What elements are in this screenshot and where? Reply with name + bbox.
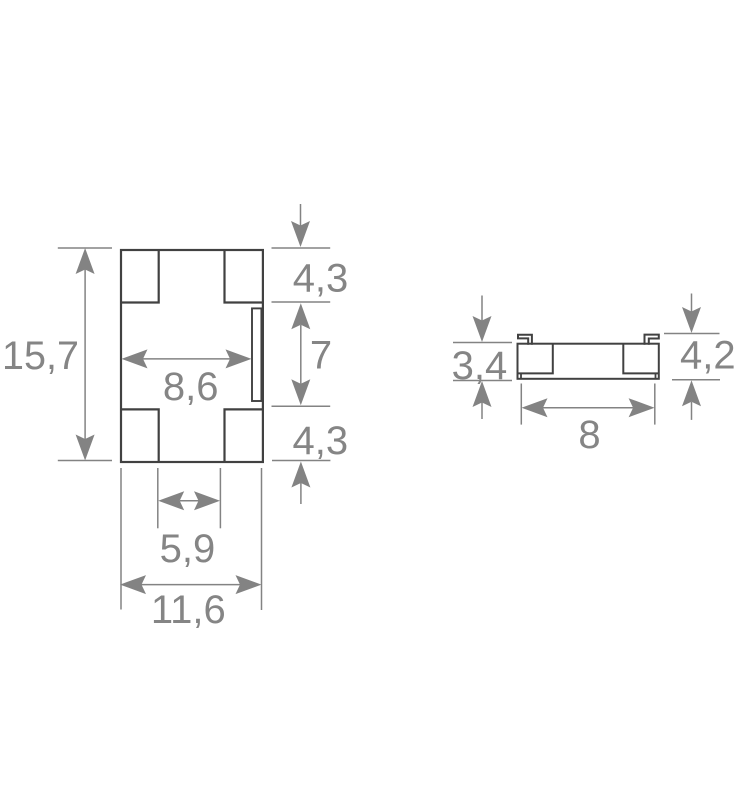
extension line 3,4 top <box>453 342 512 344</box>
svg-text:4,2: 4,2 <box>680 334 736 378</box>
extension line 4,2 top <box>664 333 720 335</box>
svg-text:7: 7 <box>310 334 332 378</box>
extension line 4,2 bottom <box>672 379 720 381</box>
dimension line 11,6 <box>142 584 241 586</box>
left view bottom-left corner pad <box>121 409 159 462</box>
arrowhead 4,3 bottom pointing up <box>291 462 310 488</box>
left view top-left corner pad <box>121 250 159 303</box>
extension line right #3 <box>272 405 331 407</box>
extension line 8 left <box>520 384 522 425</box>
left view body outline <box>121 250 263 462</box>
svg-text:15,7: 15,7 <box>2 334 79 378</box>
arrowhead 7 up <box>291 303 310 329</box>
arrowhead 8 right <box>629 398 655 417</box>
dimension line 8 <box>543 407 633 409</box>
svg-text:5,9: 5,9 <box>160 527 216 571</box>
arrowhead 5,9 right <box>194 491 220 510</box>
extension line bottom right outer <box>261 468 263 610</box>
side view body outline <box>518 344 659 379</box>
side view bottom lead tick left <box>520 373 522 378</box>
extension line 3,4 bottom <box>453 380 512 382</box>
arrowhead 4,2 top pointing down <box>682 307 701 333</box>
arrowhead 3,4 bottom pointing up <box>473 381 492 407</box>
side view left electrode block <box>518 344 553 374</box>
arrowhead 3,4 top pointing down <box>473 316 492 342</box>
leader shaft 3,4 top <box>481 296 483 321</box>
svg-text:3,4: 3,4 <box>452 344 508 388</box>
leader shaft 4,3 top <box>300 204 302 226</box>
extension line right #2 <box>272 301 331 303</box>
arrowhead 8 left <box>522 398 548 417</box>
side view top-right hook tab <box>645 335 659 345</box>
side view right electrode block <box>623 344 659 374</box>
left view bottom-right corner pad <box>225 409 263 462</box>
left view right-edge notch <box>252 308 261 401</box>
arrowhead 4,3 top pointing down <box>291 221 310 247</box>
dimension line 7 <box>300 325 302 384</box>
extension line 15,7 top <box>58 247 112 249</box>
svg-text:8,6: 8,6 <box>163 365 219 409</box>
arrowhead 5,9 left <box>158 491 184 510</box>
dimension line 5,9 <box>180 500 199 502</box>
extension line 15,7 bottom <box>58 460 112 462</box>
extension line right #1 <box>272 247 331 249</box>
extension line right #4 <box>272 460 330 462</box>
dimension line 15,7 <box>84 270 86 440</box>
extension line bottom left inner <box>157 468 159 528</box>
arrowhead 8,6 right <box>226 349 252 368</box>
extension line bottom right inner <box>219 468 221 528</box>
svg-text:8: 8 <box>578 413 600 457</box>
arrowhead 15,7 up <box>76 248 95 274</box>
svg-text:11,6: 11,6 <box>151 588 226 632</box>
arrowhead 15,7 down <box>76 435 95 461</box>
dimension line 8,6 <box>143 358 230 360</box>
svg-text:4,3: 4,3 <box>292 419 348 463</box>
leader shaft 4,2 bottom <box>691 402 693 420</box>
leader shaft 3,4 bottom <box>481 403 483 420</box>
arrowhead 8,6 left <box>122 349 148 368</box>
side view top-left hook tab <box>518 335 532 345</box>
extension line 8 right <box>654 384 656 425</box>
arrowhead 4,2 bottom pointing up <box>682 380 701 406</box>
svg-text:4,3: 4,3 <box>293 257 349 301</box>
arrowhead 11,6 left <box>120 575 146 594</box>
arrowhead 7 down <box>291 379 310 405</box>
leader shaft 4,2 top <box>691 294 693 312</box>
extension line bottom left outer <box>120 468 122 610</box>
leader shaft 4,3 bottom <box>300 483 302 504</box>
left view top-right corner pad <box>225 250 263 303</box>
arrowhead 11,6 right <box>236 575 262 594</box>
side view bottom lead tick right <box>655 373 657 378</box>
